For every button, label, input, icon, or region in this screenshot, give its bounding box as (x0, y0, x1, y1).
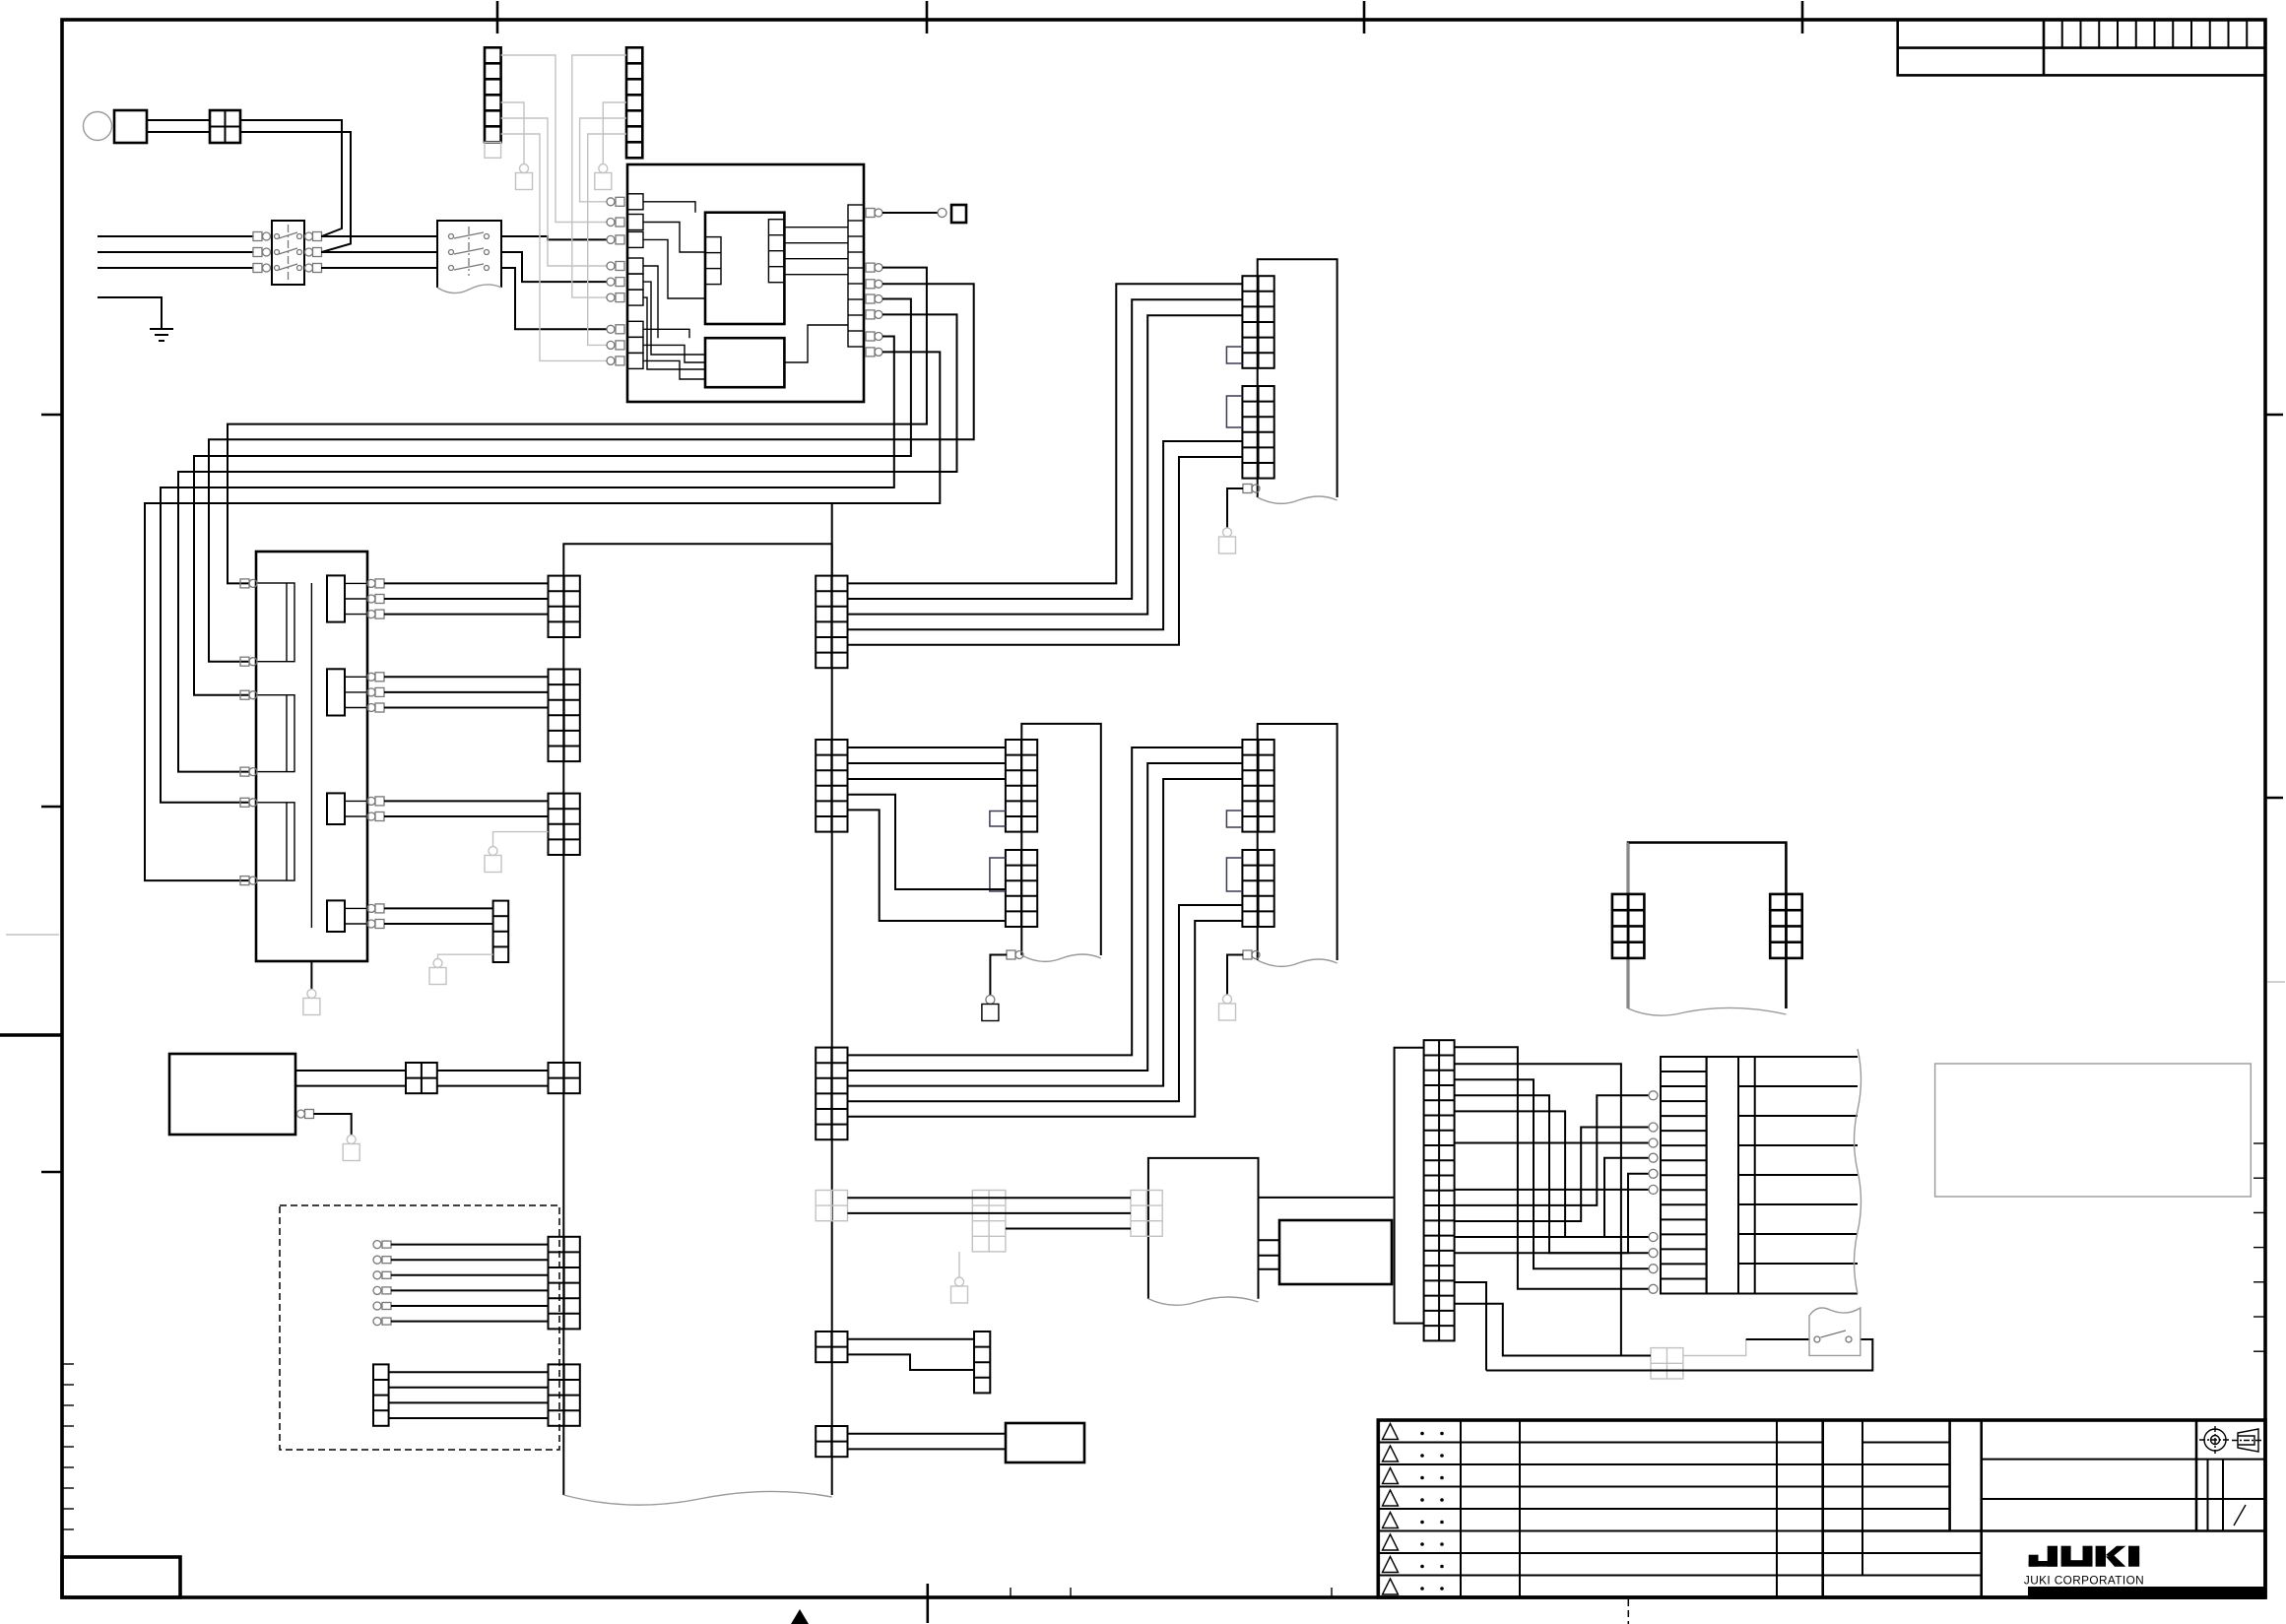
cable wire (1755, 1144, 1858, 1146)
wire (384, 691, 549, 693)
terminal pin (1649, 1265, 1658, 1273)
panel connector P1 (2x4) (1612, 894, 1645, 958)
G1 earth (958, 1252, 960, 1277)
harness wire (1455, 1079, 1649, 1268)
connector B4 (2x2, option) on CPU right edge (816, 1191, 847, 1221)
wire (847, 1433, 1006, 1435)
power bus wire (194, 299, 911, 695)
power bus wire (209, 284, 974, 661)
connector cross-box CN motor (210, 110, 240, 143)
CN-M side link (1395, 1048, 1424, 1324)
wire (847, 778, 1006, 780)
box pin and earth (1007, 950, 1023, 959)
connector B5 (2x2) on CPU right edge (816, 1332, 847, 1362)
connector D2 (1x4) (974, 1332, 990, 1393)
power bus wire (178, 314, 957, 771)
wire switch SW3 return (1486, 1339, 1872, 1371)
ground wire (98, 297, 162, 329)
feed wire (1455, 1064, 1621, 1355)
cable wire (1755, 1233, 1858, 1235)
earth terminal E8 (951, 1277, 968, 1303)
wire option (1006, 1228, 1131, 1230)
latch C1 (990, 812, 1006, 827)
earth terminal E5 (343, 1136, 359, 1161)
head terminal wire (373, 1318, 381, 1326)
harness wire (1455, 1095, 1649, 1205)
wire (389, 1371, 549, 1373)
regulator sub-box 2 (705, 338, 784, 387)
bottom centre dashed mark (1627, 1599, 1629, 1624)
signal bus wire (847, 763, 1242, 1071)
RB1 pin and earth (1243, 485, 1260, 493)
driver board RB2 (torn bottom) (1258, 724, 1338, 960)
svg-text:JUKI CORPORATION: JUKI CORPORATION (2024, 1574, 2144, 1588)
title block middle section (1861, 1420, 1863, 1576)
sensor board (torn bottom) (1148, 1158, 1259, 1299)
main control PCB block (torn bottom) (563, 544, 831, 1495)
wire (847, 1354, 974, 1370)
transformer right pin groups (327, 575, 345, 621)
latch C2 (990, 858, 1006, 891)
transformer bottom earth (310, 961, 312, 990)
connector S2 (2x6) on RB1 (1242, 386, 1274, 479)
earth terminal E1 (516, 164, 533, 190)
latch S2 (1226, 396, 1242, 427)
earth terminal E4a (429, 959, 446, 985)
cable wire (1755, 1263, 1858, 1265)
harness wire (1455, 1174, 1649, 1253)
power bus wire (228, 268, 927, 584)
option wiring (light) (501, 55, 607, 223)
power unit internal wires (643, 202, 695, 213)
wire (384, 582, 549, 584)
transformer core line (310, 583, 312, 928)
wire sensor board to CN main (1259, 1197, 1395, 1199)
terminal pin (1649, 1169, 1658, 1178)
notes box (1935, 1064, 2252, 1197)
wire (295, 1085, 406, 1087)
JUKI logo (2029, 1546, 2140, 1567)
connector B6 (2x2) on CPU right edge (816, 1426, 847, 1457)
signal bus wire (847, 441, 1242, 629)
power unit left pin column (607, 197, 624, 206)
connector A3 (2x4) on CPU left edge (549, 794, 580, 855)
terminal bank outer column (1738, 1057, 1755, 1294)
connector B2 (2x6) on CPU right edge (816, 740, 847, 832)
main harness connector CN-M (2x20) (1424, 1040, 1455, 1340)
bottom-left scale box (62, 1557, 180, 1597)
earth terminal E4b (485, 847, 501, 873)
option connector G1 (2x4) (972, 1191, 1006, 1252)
bottom centre black triangle marker (791, 1609, 809, 1624)
driver IC box (1279, 1220, 1392, 1284)
connector A6 (2x4) on CPU left edge (549, 1364, 580, 1425)
connector B1 (2x6) on CPU right edge (816, 576, 847, 669)
wire (384, 800, 549, 802)
option connector strip CN-B (626, 47, 642, 158)
option connector G3 (2x2) (1651, 1348, 1683, 1379)
pedal box pin and earth (297, 1110, 314, 1119)
RB2 pin and earth (1243, 950, 1260, 959)
option connector strip CN-A (485, 47, 501, 142)
indicator terminal (951, 205, 966, 223)
earth terminal E6a (1219, 528, 1236, 553)
wire (847, 1448, 1006, 1450)
third angle projection symbol (2199, 1426, 2231, 1454)
wire motor to switch (240, 120, 342, 236)
wire (295, 1070, 406, 1072)
latch T2 (1226, 858, 1242, 891)
connector A5 (2x6) on CPU left edge (549, 1237, 580, 1330)
harness wire (1455, 1047, 1649, 1289)
operation panel board (torn bottom) (1628, 843, 1786, 1009)
connector X2 (2x2) on CPU left edge (549, 1063, 580, 1093)
wire (384, 923, 493, 925)
wire CN-M to switch return (1455, 1282, 1486, 1371)
signal bus wire (847, 315, 1242, 614)
driver board RB1 (torn bottom) (1258, 259, 1338, 497)
latch T1 (1226, 811, 1242, 827)
machine head motor M (84, 112, 112, 141)
slash mark (2234, 1505, 2246, 1526)
wire SW1 to SW2 (321, 267, 437, 269)
wire (847, 810, 1006, 921)
cable wire (1755, 1115, 1858, 1117)
wire (847, 762, 1006, 764)
terminal bank body (1707, 1057, 1738, 1294)
signal bus wire (847, 299, 1242, 599)
wire (847, 1338, 974, 1340)
top-right header table (1898, 20, 2265, 75)
sub-box1 left pads (705, 237, 721, 285)
signal bus wire (847, 921, 1242, 1117)
power bus wire (145, 352, 940, 880)
wire (437, 1070, 549, 1072)
earth terminal E6 (1219, 995, 1236, 1020)
wire SW1 to SW2 (321, 251, 437, 253)
wire (384, 707, 549, 709)
panel connector P2 (2x4) (1770, 894, 1802, 958)
head terminal wire (373, 1271, 381, 1279)
tap to CPU connector B1 (831, 503, 833, 576)
head terminal wire (373, 1286, 381, 1294)
wire (384, 907, 493, 909)
connector G2 (2x3) (1131, 1191, 1162, 1237)
connector X1 (2x2) (406, 1063, 437, 1093)
head connector D1 (1x4) (373, 1364, 389, 1425)
pedal / control box (169, 1054, 295, 1135)
breaker SW2 box (torn bottom) (437, 221, 501, 288)
connector B3 (2x6) on CPU right edge (816, 1048, 847, 1140)
power unit right pad column (848, 205, 864, 347)
connector C2 (2x5) (1006, 850, 1037, 927)
harness wire (1455, 1142, 1649, 1144)
motor terminal box (114, 110, 147, 143)
mains input wires L1 L2 L3 (98, 235, 253, 237)
signal bus wire (847, 284, 1242, 583)
left border marks (41, 414, 62, 417)
solenoid driver board (torn bottom) (1021, 724, 1101, 955)
cable wire (1755, 1085, 1858, 1087)
earth wire (493, 832, 549, 847)
right border ruler ticks (2253, 1142, 2265, 1144)
sub-box1 right pads (768, 220, 784, 283)
winding (256, 695, 294, 772)
title block / revision table (1378, 1420, 2265, 1597)
terminal pin (1649, 1284, 1658, 1293)
machine head (dashed outline) (280, 1205, 559, 1450)
terminal pin (1649, 1185, 1658, 1194)
regulator sub-box 1 (705, 213, 784, 324)
wire (389, 1387, 549, 1389)
connector A2 (2x6) on CPU left edge (549, 670, 580, 762)
power bus wire (161, 337, 894, 803)
cable wire (1755, 1293, 1858, 1295)
wire (147, 119, 210, 121)
top fold marks (496, 1, 499, 33)
revision triangles and date dots (1383, 1424, 1399, 1440)
earth wire (438, 954, 493, 958)
signal bus wire (847, 779, 1242, 1086)
terminal pin (1649, 1138, 1658, 1147)
power switch SW1 box (272, 221, 304, 285)
wire G3 to switch (1683, 1339, 1746, 1356)
signal bus wire (847, 747, 1242, 1055)
transformer left pins (240, 579, 257, 588)
winding (256, 583, 294, 662)
terminal pin (1649, 1249, 1658, 1258)
transformer block (256, 552, 367, 961)
wire (1259, 1255, 1280, 1257)
wire (1259, 1268, 1280, 1270)
terminal pin (1649, 1233, 1658, 1242)
harness wire (1455, 1128, 1649, 1222)
harness wire (1455, 1111, 1649, 1237)
title block right section (2195, 1420, 2198, 1531)
wire (147, 131, 210, 133)
latch S1 (1226, 347, 1242, 363)
wire (847, 795, 1006, 889)
harness wire (1455, 1095, 1649, 1253)
connector A1 (2x4) on CPU left edge (549, 576, 580, 637)
wire CN-M to G3 (1455, 1304, 1651, 1356)
wires SW2 to power unit (501, 236, 607, 239)
cable torn edge (1855, 1049, 1861, 1294)
wire (437, 1085, 549, 1087)
head terminal wire (373, 1302, 381, 1310)
power unit box PWR (627, 164, 864, 402)
terminal pin (1649, 1153, 1658, 1162)
wire (384, 614, 549, 616)
harness wire (1455, 1189, 1649, 1191)
wire option (847, 1197, 1131, 1199)
harness wire (1455, 1158, 1649, 1237)
signal bus wire (847, 905, 1242, 1101)
knee switch SW3 (torn flag) (1809, 1308, 1861, 1355)
bottom border marks (926, 1584, 929, 1623)
ground symbol (150, 328, 173, 330)
power unit output pin + lamp (866, 209, 882, 218)
signal bus wire (847, 457, 1242, 645)
wire (384, 815, 549, 817)
wire (384, 598, 549, 600)
terminal pin (1649, 1123, 1658, 1132)
terminal pin (1649, 1091, 1658, 1100)
wire (847, 747, 1006, 748)
cable wire (1755, 1174, 1858, 1176)
connector S1 (2x6) on RB1 (1242, 276, 1274, 368)
winding (256, 803, 294, 880)
wire to switch SW3 (1746, 1338, 1809, 1340)
wire (1259, 1239, 1280, 1241)
head terminal wire (373, 1256, 381, 1264)
power unit right pins (866, 263, 882, 272)
right border marks (2265, 414, 2283, 417)
buzzer box (1006, 1423, 1084, 1462)
wire (389, 1401, 549, 1403)
earth terminal E7 (982, 996, 999, 1021)
wire (384, 676, 549, 678)
connector C1 (2x6) (1006, 740, 1037, 832)
wire SW1 to SW2 (321, 235, 437, 237)
connector T1 (2x6) on RB2 (1242, 740, 1274, 832)
connector A4 (1x4) (493, 901, 509, 962)
wire (389, 1417, 549, 1419)
connector T2 (2x5) on RB2 (1242, 850, 1274, 927)
earth terminal E3 (303, 990, 320, 1015)
wire option (847, 1212, 1131, 1214)
earth terminal E2 (595, 164, 612, 190)
cable wire (1755, 1203, 1858, 1205)
wire motor to switch (240, 132, 351, 252)
left border ruler ticks (62, 1363, 74, 1365)
cable wire (1755, 1056, 1858, 1058)
relay / terminal bank (1661, 1057, 1707, 1293)
head terminal wire (373, 1241, 381, 1249)
